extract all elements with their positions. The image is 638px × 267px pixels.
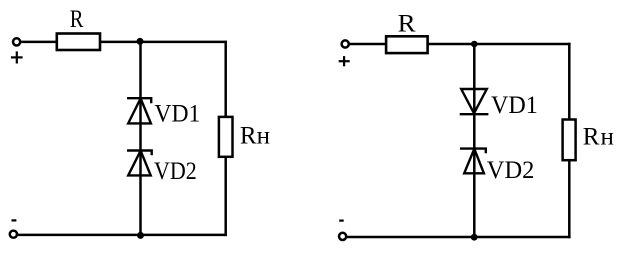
- label Rn: [240, 122, 270, 149]
- wire: bottom rail: [347, 236, 571, 239]
- svg-text:Rн: Rн: [240, 122, 270, 149]
- node: top junction: [471, 41, 478, 48]
- wire: bottom rail: [18, 234, 227, 237]
- terminal - (bottom terminal): [339, 233, 346, 240]
- label VD1: [154, 101, 200, 128]
- svg-text:VD2: VD2: [154, 158, 197, 185]
- resistor Rn (load): [563, 120, 576, 161]
- label R: [70, 6, 84, 33]
- label VD2: [154, 158, 197, 185]
- wire: resistor R to top-right corner: [100, 41, 227, 44]
- wire: load resistor down to bottom wire: [568, 160, 571, 238]
- svg-text:VD2: VD2: [487, 157, 535, 184]
- label +: [11, 51, 23, 63]
- wire: vertical diode branch: [139, 42, 142, 235]
- terminal + (top-right circuit input terminal): [342, 40, 349, 47]
- resistor Rn (load): [219, 117, 233, 157]
- label VD1: [491, 92, 538, 119]
- terminal - (bottom-left terminal): [10, 231, 17, 238]
- zener diode VD2: [127, 151, 152, 176]
- svg-text:R: R: [398, 10, 416, 37]
- wire: resistor R to top-right corner: [428, 43, 571, 46]
- label Rn: [583, 123, 615, 150]
- svg-text:VD1: VD1: [154, 101, 200, 128]
- node: bottom junction: [471, 234, 478, 241]
- resistor R: [386, 36, 428, 53]
- zener diode VD1: [127, 98, 151, 123]
- label R: [398, 10, 416, 37]
- diode VD1: [460, 89, 489, 114]
- wire: top-right corner down to load resistor: [224, 41, 227, 117]
- label VD2: [487, 157, 535, 184]
- wire: top-left terminal to resistor R: [21, 41, 57, 44]
- wire: vertical diode branch: [473, 44, 476, 237]
- wire: terminal to resistor R: [350, 43, 387, 46]
- label +: [339, 56, 350, 66]
- svg-text:Rн: Rн: [583, 123, 615, 150]
- label -: [12, 219, 17, 221]
- wire: top-right corner down to load resistor: [568, 43, 571, 120]
- label -: [339, 220, 344, 222]
- svg-text:VD1: VD1: [491, 92, 538, 119]
- terminal + (top-left input terminal): [13, 38, 20, 45]
- wire: load resistor down to bottom wire: [224, 157, 227, 236]
- zener diode VD2: [460, 149, 486, 174]
- node: bottom junction: [137, 232, 144, 239]
- svg-text:R: R: [70, 6, 84, 33]
- node: top junction: [137, 38, 144, 45]
- resistor R: [57, 34, 100, 51]
